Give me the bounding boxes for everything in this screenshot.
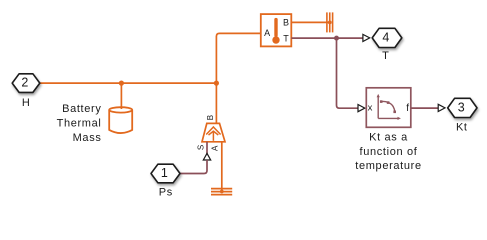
- svg-text:Battery: Battery: [62, 103, 101, 115]
- lookup icon: axes and curve: [378, 96, 399, 118]
- outport 4 hexagon: [372, 28, 402, 47]
- svg-text:Kt: Kt: [456, 121, 468, 133]
- wire: junction J2 down to heat source B port: [215, 83, 217, 124]
- svg-text:H: H: [22, 97, 31, 109]
- temperature sensor block U1: [261, 14, 292, 46]
- inport 1 hexagon: [151, 164, 180, 183]
- PS wire stub: heat source S port: [206, 142, 208, 154]
- PS wire: sensor T port to junction J3 to outport 4: [291, 37, 363, 39]
- svg-text:T: T: [382, 50, 389, 62]
- svg-text:A: A: [210, 145, 219, 151]
- thermometer icon: [272, 18, 279, 44]
- svg-text:3: 3: [458, 101, 465, 115]
- svg-text:B: B: [206, 115, 215, 120]
- svg-text:Ps: Ps: [159, 186, 173, 198]
- wire: heat source A port down to thermal reference ref2: [221, 142, 223, 192]
- svg-text:4: 4: [382, 31, 389, 45]
- svg-text:x: x: [368, 103, 373, 114]
- wire: junction J2 up and right to thermometer A port: [216, 33, 260, 83]
- svg-text:S: S: [196, 145, 205, 150]
- PS wire: lookup f port to outport 3: [411, 107, 439, 109]
- heat flow source Q1 (trapezoid): [202, 123, 225, 141]
- arrowhead into outport 4: [363, 34, 370, 41]
- svg-text:T: T: [283, 34, 289, 44]
- arrowhead into outport 3: [438, 104, 445, 111]
- svg-text:Kt as a: Kt as a: [369, 132, 408, 144]
- svg-text:B: B: [283, 17, 289, 27]
- wire: H port to junction J2 (main horizontal thermal wire): [40, 82, 217, 84]
- lookup table block U2 (Kt as a function of temperature): [366, 88, 411, 128]
- PS wire: junction J3 down and right to lookup x port: [337, 38, 359, 108]
- thermal reference ref1 (rotated ground, 3 vertical bars): [327, 12, 333, 32]
- arrowhead into S port: [203, 153, 210, 160]
- junction J2: [214, 81, 219, 86]
- svg-text:1: 1: [161, 166, 168, 180]
- heat source icon: double chevron up arrow: [206, 127, 220, 141]
- svg-text:Thermal: Thermal: [57, 118, 102, 130]
- PS wire: inport 1 to S arrowhead: [180, 160, 207, 174]
- svg-text:2: 2: [21, 76, 28, 90]
- svg-text:Mass: Mass: [73, 132, 102, 144]
- svg-text:function of: function of: [360, 146, 418, 158]
- arrowhead into lookup x port: [358, 105, 365, 112]
- svg-text:f: f: [406, 103, 409, 114]
- thermal reference ref2 (ground, 3 horizontal lines): [211, 189, 232, 195]
- wire: junction J1 down to Battery Thermal Mass: [120, 83, 122, 109]
- svg-text:A: A: [264, 28, 270, 38]
- thermal mass icon (Battery Thermal Mass): [109, 107, 132, 133]
- wire: sensor B port to thermal reference ref1: [291, 21, 330, 23]
- inport 2 hexagon: [12, 74, 40, 93]
- outport 3 hexagon: [448, 98, 477, 117]
- junction J3: [334, 36, 339, 41]
- svg-text:temperature: temperature: [355, 160, 421, 172]
- junction J1: [119, 81, 124, 86]
